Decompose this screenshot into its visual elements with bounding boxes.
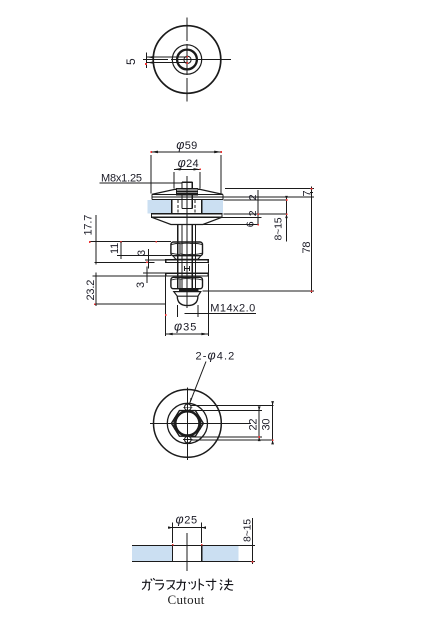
- dimension 30: [261, 401, 275, 444]
- right stack: ext lines for 2 / 2 / 6 / 8~15: [204, 200, 288, 225]
- dimension 22: [248, 406, 261, 441]
- small hole bottom (φ4.2): [183, 435, 192, 444]
- top view outer circle (head rim): [153, 26, 221, 94]
- sleeve hidden lines in glass hole: [178, 200, 195, 213]
- bolt top stud (M8): [182, 182, 192, 208]
- svg-text:2-φ4.2: 2-φ4.2: [196, 349, 236, 363]
- svg-text:78: 78: [301, 242, 313, 254]
- gasket under head: [152, 197, 223, 200]
- svg-text:8~15: 8~15: [242, 519, 254, 542]
- svg-text:8~15: 8~15: [273, 217, 285, 240]
- ext lines for 22 / 30: [191, 405, 273, 440]
- top view horizontal centerline: [143, 59, 231, 61]
- svg-text:5: 5: [124, 58, 138, 65]
- lower saucer disc: [152, 217, 223, 224]
- left side: dimension 17.7: [83, 215, 172, 265]
- top view middle circle: [172, 45, 201, 74]
- washer under glass: [152, 214, 223, 218]
- top view thick inner circle: [177, 50, 197, 70]
- section vertical centerline: [186, 176, 188, 308]
- katakana ガ: [142, 578, 155, 590]
- katakana ラ: [155, 580, 164, 590]
- plate washer phi35 (lower): [166, 273, 209, 276]
- svg-text:11: 11: [109, 243, 121, 254]
- kanji 法: [220, 579, 234, 591]
- glass panel (light blue): [148, 200, 224, 213]
- bottom view horizontal centerline: [150, 422, 251, 424]
- svg-text:M14x2.0: M14x2.0: [210, 302, 255, 314]
- hole edges: [173, 545, 202, 561]
- nut1 washer-face chamfer: [173, 256, 201, 259]
- hex nut silhouette: [171, 411, 203, 437]
- label M8x1.25 with leader: [99, 173, 182, 185]
- svg-text:φ35: φ35: [174, 320, 197, 334]
- svg-text:φ25: φ25: [176, 513, 198, 527]
- plate washer phi35 (upper): [166, 260, 209, 263]
- svg-text:6: 6: [245, 221, 257, 227]
- svg-text:2: 2: [247, 210, 259, 216]
- label 2-φ4.2 with leader: [190, 349, 236, 404]
- svg-text:φ59: φ59: [176, 138, 197, 152]
- kanji 寸: [206, 579, 217, 590]
- washer-face arcs at hex corners: [174, 418, 201, 430]
- label ガラスカット寸法 (drawn strokes): [142, 578, 233, 590]
- bolt shank (M14): [178, 225, 196, 289]
- dimension 3 (lower washer): [135, 267, 166, 289]
- thread below nut2 (dark): [179, 289, 199, 292]
- thread engagement (dark) in head: [176, 188, 198, 196]
- top view hex socket circle: [184, 56, 191, 63]
- glass hole edges: [172, 200, 202, 213]
- dimension 8~15 (cutout): [242, 518, 256, 564]
- dimension φ25: [168, 513, 206, 546]
- katakana カ: [177, 579, 187, 590]
- hex nut 2: [171, 277, 203, 288]
- katakana small ッ: [189, 581, 196, 589]
- dimension 5 (hex socket): [124, 52, 188, 68]
- shank gap with break mark: [184, 266, 189, 271]
- dome nut chamfer: [174, 292, 201, 297]
- bottom view inner circle phi30: [167, 403, 207, 443]
- dimension 23.2: [85, 273, 166, 307]
- dimension φ24: [174, 156, 201, 189]
- svg-text:22: 22: [248, 419, 260, 431]
- dimensions 2 / 2 / 6: [245, 190, 260, 227]
- glass strip outline: [132, 545, 255, 561]
- right side: extension lines for 7 / 78: [203, 189, 315, 292]
- svg-text:30: 30: [261, 419, 273, 431]
- svg-text:7: 7: [301, 191, 313, 197]
- dimension 3 (upper washer): [136, 249, 166, 269]
- bottom view vertical centerline: [186, 388, 188, 461]
- svg-text:Cutout: Cutout: [168, 592, 205, 607]
- hex nut 1: [171, 242, 203, 256]
- svg-text:17.7: 17.7: [83, 215, 95, 236]
- dimension 7 and 78: [301, 187, 313, 294]
- dimension 8~15 (glass thickness): [273, 196, 288, 242]
- small hole top (φ4.2): [183, 403, 192, 412]
- hole centerline: [186, 533, 188, 571]
- label Cutout: [168, 592, 205, 607]
- head cone outline: [152, 189, 223, 197]
- katakana ス: [166, 581, 175, 590]
- svg-text:3: 3: [136, 250, 148, 256]
- top view vertical centerline: [186, 18, 188, 102]
- svg-text:φ24: φ24: [178, 156, 199, 170]
- svg-text:3: 3: [135, 282, 147, 288]
- dimension φ59: [150, 138, 222, 194]
- dome cap: [177, 292, 198, 306]
- label M14x2.0 with leader: [177, 302, 256, 317]
- svg-text:23.2: 23.2: [85, 280, 97, 301]
- svg-text:2: 2: [247, 194, 259, 200]
- dimension 11 (nut height): [109, 242, 171, 259]
- glass strip fill: [132, 546, 239, 561]
- dimension φ35: [165, 264, 209, 337]
- bottom view outer circle: [154, 390, 222, 458]
- katakana ト: [199, 579, 204, 591]
- thread ring (thick): [175, 411, 199, 435]
